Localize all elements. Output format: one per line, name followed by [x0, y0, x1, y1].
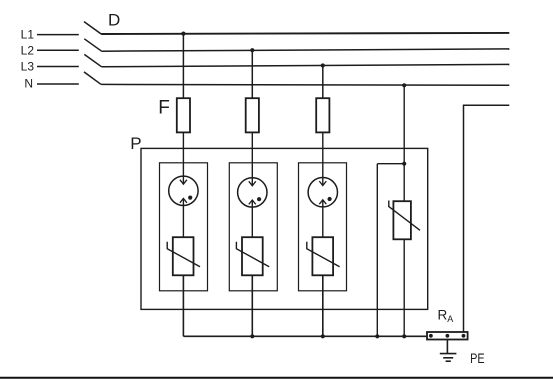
node junction RV2 on earth bus	[250, 334, 254, 338]
wire fuse F3 to spark gap 3	[322, 132, 324, 185]
svg-text:L1: L1	[21, 28, 35, 42]
ground symbol	[440, 354, 457, 362]
svg-text:D: D	[108, 11, 120, 30]
svg-text:P: P	[130, 134, 141, 153]
wire varistor RV3 to earth bus	[322, 275, 324, 336]
varistor RV3	[307, 237, 340, 275]
varistor RV1	[167, 237, 200, 275]
node junction N tap	[402, 83, 406, 87]
wire N drop	[403, 85, 405, 201]
svg-text:PE: PE	[470, 351, 485, 366]
switch blade L3	[84, 54, 101, 66]
wire L3 left segment	[37, 66, 79, 68]
wire N bus	[101, 83, 509, 86]
wire varistor RV4 to earth bus	[403, 239, 405, 336]
varistor RV4	[389, 201, 420, 240]
wire N left segment	[37, 83, 79, 85]
wire fuse F1 to spark gap 1	[182, 132, 184, 184]
node junction branch on earth bus	[375, 334, 379, 338]
node junction RV3 on earth bus	[321, 334, 325, 338]
spark gap GDT 1	[169, 176, 198, 237]
bottom frame line	[0, 377, 553, 379]
node terminal bar dot 3	[462, 334, 466, 338]
wire fuse F2 to spark gap 2	[251, 132, 253, 185]
fuse F1	[177, 98, 190, 132]
fuse F3	[316, 98, 329, 132]
wire L2 bus	[102, 49, 510, 51]
wire branch horizontal	[377, 163, 404, 165]
wire L2 drop to fuse F2	[251, 50, 253, 98]
node junction L3 tap	[321, 63, 325, 67]
SPD module 1 box	[160, 163, 208, 291]
wire L3 bus	[102, 64, 510, 66]
wire earth bus	[183, 335, 427, 337]
SPD enclosure box P	[141, 148, 428, 309]
wire L1 drop to fuse F1	[182, 34, 184, 99]
wire L1 left segment	[37, 34, 79, 36]
switch blade L1	[84, 22, 101, 34]
wire L2 left segment	[37, 49, 79, 51]
switch blade N	[84, 72, 101, 84]
svg-text:N: N	[24, 77, 33, 91]
node junction L2 tap	[250, 48, 254, 52]
earthing terminal bar RA	[427, 332, 468, 340]
varistor RV2	[236, 237, 269, 275]
wire to ground electrode	[446, 340, 448, 354]
wire varistor RV1 to earth bus	[182, 275, 184, 336]
svg-text:F: F	[158, 97, 170, 118]
SPD module 3 box	[299, 163, 347, 291]
spark gap GDT 3	[308, 178, 337, 238]
svg-text:L3: L3	[21, 59, 35, 73]
svg-text:L2: L2	[21, 43, 35, 57]
node junction N branch	[402, 162, 406, 166]
wire branch vertical to earth bus	[376, 164, 378, 337]
spark gap GDT 2	[238, 178, 267, 238]
wire L1 bus	[101, 33, 509, 34]
node junction L1 tap	[181, 31, 185, 35]
node terminal bar dot 2	[446, 334, 450, 338]
SPD module 2 box	[229, 163, 277, 291]
wire L3 drop to fuse F3	[322, 66, 324, 99]
node junction RV4 on earth bus	[402, 334, 406, 338]
wire PE feed from right	[464, 105, 510, 332]
switch blade L2	[84, 39, 101, 51]
fuse F2	[246, 98, 259, 132]
node terminal bar dot 1	[429, 334, 433, 338]
wire varistor RV2 to earth bus	[251, 275, 253, 336]
